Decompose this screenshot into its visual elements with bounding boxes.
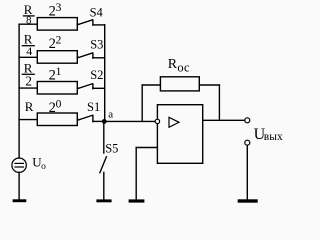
svg-text:8: 8 xyxy=(26,14,32,26)
svg-text:R: R xyxy=(25,99,34,114)
svg-text:4: 4 xyxy=(26,44,32,58)
svg-text:3: 3 xyxy=(56,2,62,14)
svg-text:S4: S4 xyxy=(90,6,104,20)
svg-text:0: 0 xyxy=(56,98,62,110)
svg-text:вых: вых xyxy=(264,131,283,143)
svg-text:ос: ос xyxy=(177,60,190,74)
svg-text:S3: S3 xyxy=(90,38,103,52)
svg-text:о: о xyxy=(41,162,46,172)
svg-text:S5: S5 xyxy=(105,142,118,156)
svg-text:S1: S1 xyxy=(87,100,100,114)
svg-text:1: 1 xyxy=(56,66,62,78)
svg-text:S2: S2 xyxy=(90,68,103,82)
svg-text:2: 2 xyxy=(56,34,62,46)
svg-text:R: R xyxy=(168,57,178,72)
svg-text:2: 2 xyxy=(25,74,32,89)
svg-text:a: a xyxy=(108,109,113,121)
